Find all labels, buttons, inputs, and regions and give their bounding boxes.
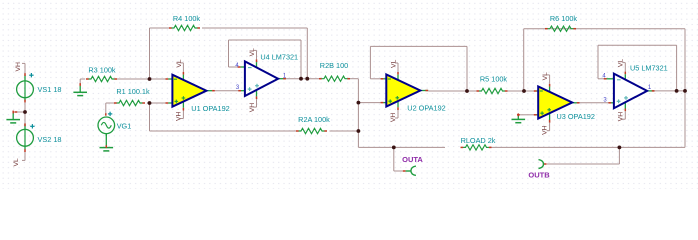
pin U4 pin3	[241, 90, 245, 92]
svg-text:R3 100k: R3 100k	[88, 65, 116, 74]
svg-text:U4 LM7321: U4 LM7321	[260, 52, 298, 61]
net tag VH supply	[24, 63, 26, 66]
ground tick VG1	[105, 145, 107, 148]
svg-text:R4 100k: R4 100k	[173, 14, 201, 23]
svg-text:OUTA: OUTA	[402, 155, 423, 164]
wire R4 left vertical	[149, 28, 151, 79]
wire VS1 bottom to junction	[24, 100, 26, 112]
wire R1 left lead	[106, 102, 116, 104]
wire right vertical out to load rail	[684, 91, 686, 147]
wire U2 loop pin lead	[370, 78, 381, 80]
wire U5 loop left vertical	[597, 45, 599, 79]
ground at VS junction	[12, 112, 14, 120]
svg-text:VH: VH	[249, 103, 256, 113]
pin U3 output	[572, 102, 579, 104]
junction VS1-VS2-ground	[23, 110, 27, 114]
pin U5 pin3	[611, 102, 614, 104]
junction OUTA tap	[392, 146, 396, 150]
resistor R2B 100	[319, 78, 322, 80]
voltage source VS2	[24, 124, 26, 129]
pin U2 output	[420, 90, 428, 92]
pin U1 output	[206, 90, 212, 92]
source VG1	[105, 113, 107, 116]
junction U2 loop at output	[465, 89, 469, 93]
wire R1 right to node	[147, 102, 150, 104]
net tag VH at U4	[256, 89, 258, 97]
pin U2 noninverting	[383, 102, 386, 104]
wire U2 out rail	[428, 90, 476, 92]
wire R1 left corner to VG1	[105, 103, 107, 113]
svg-text:VH: VH	[176, 111, 183, 121]
wire node to U1 inverting input	[150, 78, 166, 80]
svg-text:VL: VL	[13, 158, 20, 167]
wire U5 loop pin4 lead	[598, 78, 604, 80]
wire junction to left ground	[16, 111, 25, 113]
resistor R1 100.1k	[114, 102, 117, 104]
svg-text:R5 100k: R5 100k	[480, 75, 508, 84]
wire R2A right to node	[330, 130, 359, 132]
junction U4 loop at output	[299, 77, 303, 81]
svg-text:OUTB: OUTB	[528, 171, 550, 180]
wire node down to out rail	[357, 131, 359, 147]
svg-text:VG1: VG1	[117, 121, 132, 130]
op-amp U1 OPA192	[172, 75, 206, 107]
wire U5 loop right drop	[676, 45, 678, 91]
net tag VL at U1	[182, 63, 184, 72]
wire node to U1 noninv input	[150, 102, 166, 104]
net tag VL at U2	[397, 63, 399, 72]
wire R6 rail	[551, 28, 685, 30]
svg-text:VH: VH	[542, 125, 549, 135]
svg-text:VL: VL	[249, 48, 256, 57]
wire U5 out rail	[655, 90, 686, 92]
wire VH tag to VS1 top	[24, 65, 26, 76]
wire U1 output to U4 pin3	[215, 90, 239, 92]
pin U3 noninverting	[537, 114, 539, 116]
terminal VS1 top	[24, 73, 26, 76]
pin U5 output	[647, 90, 654, 92]
wire U4 output rail to R2B	[286, 78, 319, 80]
wire OUTB drop	[618, 147, 620, 164]
net tag VH at U5	[624, 101, 626, 109]
wire right vertical R6 to out	[684, 29, 686, 91]
junction R4 at U4 output	[305, 77, 309, 81]
terminal VS1 bottom	[24, 100, 26, 103]
svg-text:U3 OPA192: U3 OPA192	[557, 112, 595, 121]
terminal VS2 top	[24, 123, 26, 126]
wire R3 right to node	[117, 78, 150, 80]
wire R2B right corner	[350, 78, 358, 80]
svg-text:VL: VL	[390, 59, 397, 68]
net tag VL at U5	[624, 63, 626, 72]
svg-text:R1 100.1k: R1 100.1k	[116, 87, 150, 96]
pin U3 inverting	[537, 90, 539, 92]
junction R1-R2A-U1 noninverting node	[148, 101, 152, 105]
wire R4 left lead	[150, 27, 172, 29]
wire RLOAD right rail	[492, 146, 686, 148]
wire R3 left to ground corner	[80, 78, 85, 80]
junction node X at U2 input	[357, 101, 361, 105]
ground at U3 noninv	[517, 115, 519, 120]
resistor R2A 100k	[296, 130, 299, 132]
wire OUTB rail	[547, 163, 619, 165]
ground tick U3	[517, 113, 519, 116]
pin U4 pin4	[240, 66, 245, 68]
svg-text:VH: VH	[15, 62, 22, 72]
svg-text:VH: VH	[618, 112, 625, 122]
wire R4 right rail	[202, 27, 307, 29]
svg-text:VL: VL	[617, 59, 624, 68]
svg-text:R2B 100: R2B 100	[320, 61, 348, 70]
wire R4 right drop	[306, 28, 308, 79]
wire R2B drop to node	[357, 79, 359, 103]
resistor R3 100k	[86, 78, 89, 80]
output pin OUTA	[403, 170, 406, 172]
resistor R5 100k	[477, 90, 480, 92]
net tag VH at U2	[397, 100, 399, 108]
wire OUTA drop	[393, 147, 395, 171]
wire node down to R2A junction	[357, 103, 359, 131]
net tag VL at U3	[549, 75, 551, 84]
pin U5 pin4	[606, 78, 614, 80]
svg-text:U5 LM7321: U5 LM7321	[630, 63, 668, 72]
wire OUTA stub	[394, 170, 403, 172]
wire R5 right to U3	[508, 90, 534, 92]
svg-text:RLOAD 2k: RLOAD 2k	[461, 136, 496, 145]
svg-text:U1 OPA192: U1 OPA192	[191, 104, 229, 113]
wire U3 output to U5 pin3	[580, 102, 609, 104]
wire node to U2 noninv stub	[358, 102, 381, 104]
pin U2 inverting	[383, 78, 386, 80]
op-amp U2 OPA192	[386, 75, 420, 107]
ground at VG1	[105, 134, 107, 148]
pin U1 inverting	[168, 78, 172, 80]
junction OUTB tap	[618, 146, 622, 150]
resistor R4 100k	[169, 27, 172, 29]
svg-text:VS2 18: VS2 18	[38, 135, 62, 144]
wire U4 loop left vertical	[228, 40, 230, 67]
ground tick R3	[79, 83, 81, 86]
wire OUTA rail	[358, 146, 445, 148]
resistor RLOAD 2k	[461, 146, 464, 148]
net tag VL supply	[24, 157, 26, 160]
wire U4 loop top	[229, 39, 302, 41]
pin U4 output	[278, 78, 286, 80]
ground at R3	[79, 86, 81, 93]
svg-text:R6 100k: R6 100k	[550, 14, 578, 23]
wire R3 gnd drop	[79, 79, 81, 83]
terminal VS2 bottom	[24, 149, 26, 152]
junction U5 output at right vertical	[683, 89, 687, 93]
net tag VH at U1	[182, 100, 184, 108]
svg-text:VH: VH	[390, 113, 397, 123]
op-amp U5 LM7321	[614, 74, 647, 109]
wire R6 left vertical	[523, 29, 525, 91]
wire U2 loop right drop	[466, 46, 468, 91]
wire U4 loop pin4 lead	[229, 66, 238, 68]
wire R2A left rail	[150, 130, 299, 132]
net tag VL at U4	[256, 50, 258, 59]
op-amp U3 OPA192	[538, 87, 572, 119]
wire U3 gnd rail	[518, 114, 534, 116]
op-amp U4 LM7321	[245, 61, 278, 96]
svg-text:R2A 100k: R2A 100k	[298, 115, 330, 124]
pin U1 noninverting	[168, 102, 172, 104]
net tag VH at U3	[549, 112, 551, 120]
wire VS2 bottom to VL tag	[24, 149, 26, 161]
wire U2 loop left vertical	[369, 46, 371, 78]
resistor R6 100k	[545, 28, 548, 30]
svg-text:VL: VL	[542, 72, 549, 81]
wire U5 loop top	[598, 44, 677, 46]
svg-text:VS1 18: VS1 18	[38, 85, 62, 94]
svg-text:VL: VL	[176, 59, 183, 68]
ground tick VS junction	[12, 111, 14, 114]
wire U2 loop top	[370, 45, 467, 47]
junction R6 branch at R5	[522, 89, 526, 93]
junction R2A at node X	[357, 129, 361, 133]
wire U1 plus node down	[149, 103, 151, 131]
junction R3-R4-U1 inverting node	[148, 77, 152, 81]
output pin OUTB	[544, 163, 547, 165]
svg-text:U2 OPA192: U2 OPA192	[407, 103, 445, 112]
junction U5 loop at output	[675, 89, 679, 93]
wire R6 left lead	[524, 28, 546, 30]
voltage source VS1	[24, 75, 26, 81]
wire U4 loop right drop	[300, 40, 302, 79]
wire junction to VS2 top	[24, 112, 26, 127]
